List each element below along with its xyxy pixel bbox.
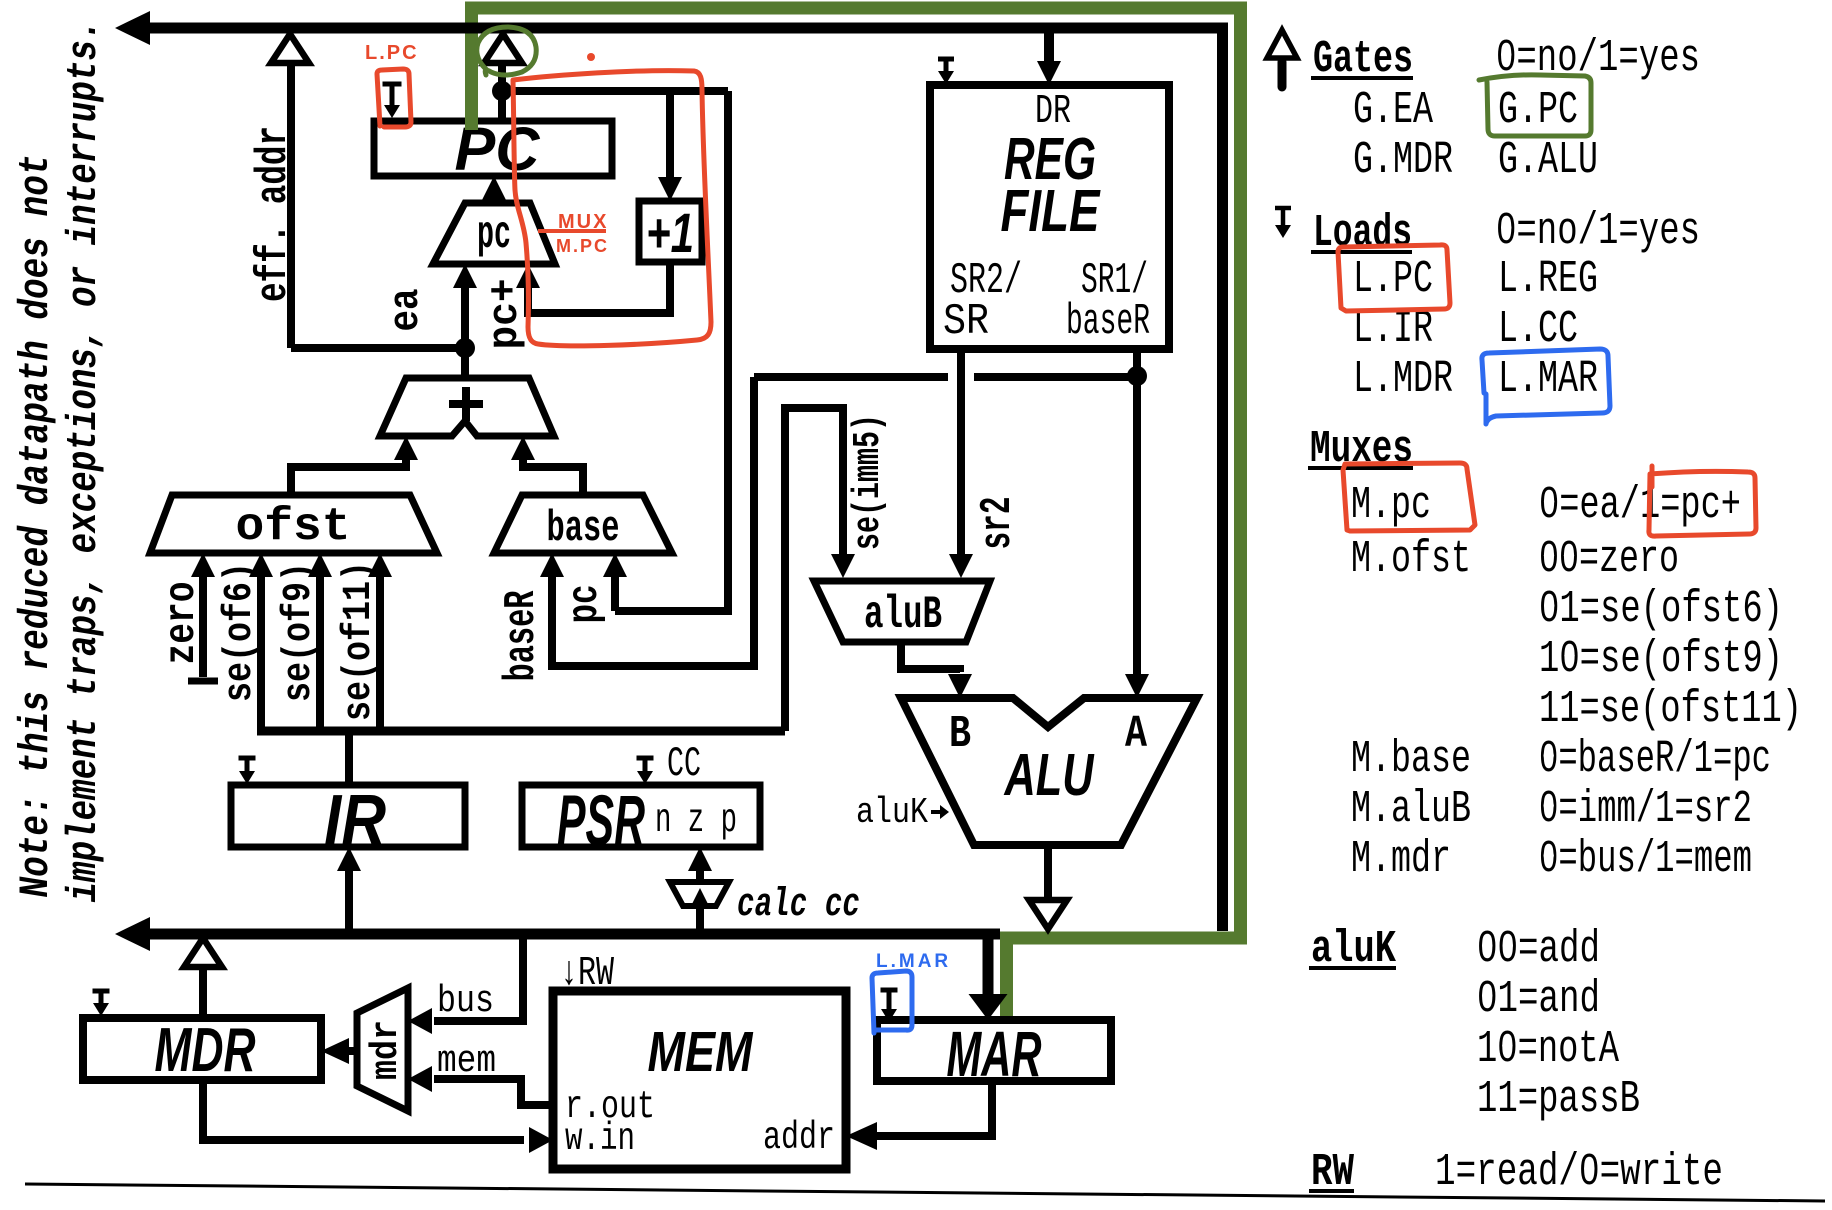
- svg-text:1=read/0=write: 1=read/0=write: [1435, 1147, 1723, 1198]
- svg-text:+1: +1: [646, 201, 694, 264]
- svg-text:B: B: [949, 709, 971, 760]
- svg-text:↓RW: ↓RW: [560, 951, 614, 997]
- svg-text:se(imm5): se(imm5): [847, 414, 890, 550]
- svg-text:M.mdr: M.mdr: [1351, 834, 1451, 885]
- svg-text:L.MDR: L.MDR: [1353, 354, 1453, 405]
- svg-text:0=imm/1=sr2: 0=imm/1=sr2: [1539, 784, 1752, 835]
- svg-text:baseR: baseR: [1066, 297, 1150, 347]
- svg-text:zero: zero: [157, 582, 206, 665]
- svg-text:0=bus/1=mem: 0=bus/1=mem: [1539, 834, 1752, 885]
- svg-text:implement traps, exceptions, o: implement traps, exceptions, or interrup…: [60, 20, 108, 903]
- svg-text:FILE: FILE: [1001, 178, 1101, 244]
- svg-text:MDR: MDR: [155, 1016, 256, 1085]
- svg-text:11=passB: 11=passB: [1477, 1074, 1640, 1125]
- svg-text:L.MAR: L.MAR: [1498, 354, 1598, 405]
- svg-text:M.base: M.base: [1351, 734, 1471, 785]
- svg-text:L.PC: L.PC: [365, 42, 419, 64]
- svg-text:CC: CC: [667, 740, 701, 788]
- svg-text:ofst: ofst: [236, 501, 351, 553]
- svg-text:MUX: MUX: [558, 211, 608, 233]
- svg-text:G.MDR: G.MDR: [1353, 135, 1453, 186]
- svg-text:addr: addr: [763, 1116, 835, 1160]
- svg-text:bus: bus: [437, 980, 494, 1023]
- svg-text:00=zero: 00=zero: [1539, 534, 1679, 585]
- svg-text:L.MAR: L.MAR: [876, 951, 951, 972]
- svg-text:L.PC: L.PC: [1353, 254, 1433, 305]
- svg-text:ALU: ALU: [1003, 742, 1094, 808]
- svg-text:01=se(ofst6): 01=se(ofst6): [1539, 584, 1783, 635]
- svg-text:G.ALU: G.ALU: [1498, 135, 1598, 186]
- svg-text:L.CC: L.CC: [1498, 304, 1578, 355]
- svg-text:pc: pc: [560, 585, 609, 624]
- svg-text:SR: SR: [943, 297, 989, 347]
- svg-text:00=add: 00=add: [1477, 924, 1600, 975]
- svg-text:MEM: MEM: [648, 1020, 754, 1084]
- svg-text:0=ea/1=pc+: 0=ea/1=pc+: [1539, 480, 1741, 531]
- svg-text:mdr: mdr: [365, 1020, 408, 1080]
- svg-text:A: A: [1125, 709, 1147, 760]
- svg-text:10=se(ofst9): 10=se(ofst9): [1539, 634, 1783, 685]
- svg-text:M.PC: M.PC: [556, 236, 609, 256]
- svg-text:M.ofst: M.ofst: [1351, 534, 1471, 585]
- svg-text:mem: mem: [437, 1040, 496, 1083]
- svg-text:11=se(ofst11): 11=se(ofst11): [1539, 684, 1802, 735]
- svg-text:M.aluB: M.aluB: [1351, 784, 1471, 835]
- svg-text:pc+: pc+: [481, 279, 529, 350]
- svg-text:G.PC: G.PC: [1498, 85, 1578, 136]
- svg-text:10=notA: 10=notA: [1477, 1024, 1619, 1075]
- svg-text:se(of9): se(of9): [277, 562, 322, 702]
- svg-text:01=and: 01=and: [1477, 974, 1600, 1025]
- svg-text:aluK: aluK: [856, 792, 928, 833]
- svg-text:baseR: baseR: [497, 590, 547, 681]
- svg-text:IR: IR: [324, 781, 386, 861]
- svg-text:se(of11): se(of11): [337, 561, 382, 721]
- svg-text:PSR: PSR: [557, 782, 645, 861]
- svg-text:Note: this reduced datapath do: Note: this reduced datapath does not: [12, 155, 60, 898]
- svg-text:w.in: w.in: [565, 1117, 635, 1161]
- svg-text:n z p: n z p: [655, 798, 737, 844]
- svg-text:MAR: MAR: [947, 1018, 1042, 1090]
- svg-text:M.pc: M.pc: [1351, 480, 1431, 531]
- svg-text:pc: pc: [477, 209, 511, 261]
- svg-text:eff. addr: eff. addr: [249, 126, 299, 302]
- svg-text:ea: ea: [382, 289, 430, 332]
- svg-text:aluB: aluB: [864, 589, 942, 641]
- svg-text:base: base: [547, 504, 620, 554]
- svg-text:0=no/1=yes: 0=no/1=yes: [1496, 206, 1700, 257]
- svg-text:se(of6): se(of6): [218, 562, 263, 702]
- svg-text:calc cc: calc cc: [737, 883, 860, 928]
- svg-text:L.REG: L.REG: [1498, 254, 1598, 305]
- svg-text:0=baseR/1=pc: 0=baseR/1=pc: [1539, 734, 1771, 785]
- svg-text:sr2: sr2: [973, 497, 1023, 550]
- svg-text:G.EA: G.EA: [1353, 85, 1433, 136]
